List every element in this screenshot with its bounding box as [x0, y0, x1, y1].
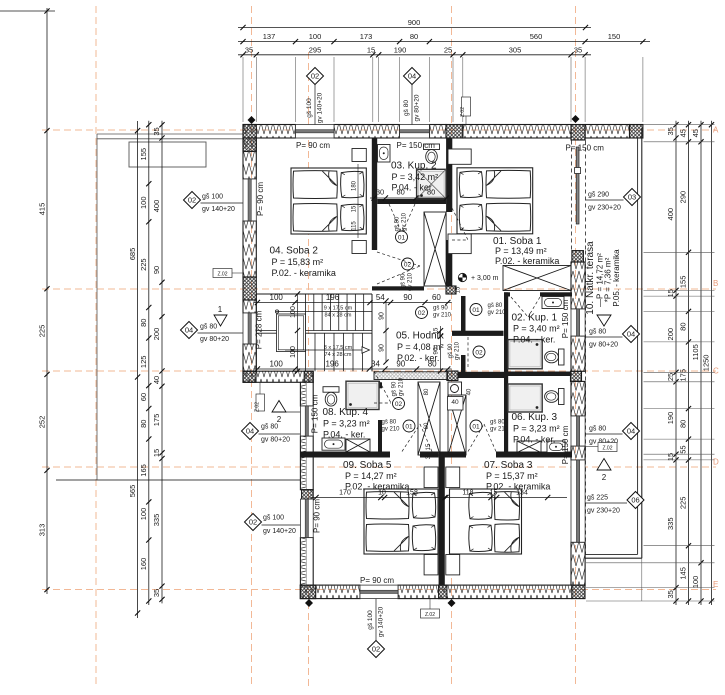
lower rooms top wall left	[300, 452, 390, 458]
marker 02 top	[307, 68, 324, 85]
svg-text:74 x 28 cm: 74 x 28 cm	[325, 352, 352, 358]
svg-text:02: 02	[418, 310, 426, 317]
bath03 toilet	[424, 144, 440, 150]
svg-text:09. Soba 5: 09. Soba 5	[343, 460, 392, 471]
svg-text:gv 140+20: gv 140+20	[263, 528, 296, 535]
svg-text:08. Kup. 4: 08. Kup. 4	[323, 407, 369, 418]
svg-text:gv 140+20: gv 140+20	[202, 206, 235, 213]
stair mid landing double line	[256, 330, 372, 332]
svg-text:9 x 17,5 cm: 9 x 17,5 cm	[324, 306, 353, 312]
svg-text:175: 175	[152, 414, 161, 427]
bed Soba3	[450, 489, 522, 554]
stair void	[277, 314, 306, 352]
svg-text:35: 35	[666, 590, 675, 598]
svg-text:P= 90 cm: P= 90 cm	[296, 141, 330, 150]
axis marker bottom x309	[305, 599, 313, 607]
svg-text:04: 04	[185, 326, 193, 335]
door Soba5 swing	[402, 424, 420, 452]
svg-text:Z.02: Z.02	[255, 402, 261, 412]
svg-text:02: 02	[404, 261, 412, 268]
nightstand Soba2 bottom	[352, 241, 366, 254]
desk Soba1	[503, 266, 571, 291]
door Kup1 swing	[511, 297, 528, 317]
bath03 dim row 30/80/80	[370, 197, 450, 199]
svg-text:01: 01	[472, 307, 480, 314]
svg-text:290: 290	[679, 191, 688, 204]
stair treads upper flight	[306, 294, 372, 331]
svg-text:P.04. - ker.: P.04. - ker.	[513, 435, 555, 445]
svg-text:175: 175	[679, 369, 688, 382]
svg-text:03: 03	[628, 193, 636, 202]
svg-text:P= 228 cm: P= 228 cm	[255, 310, 264, 349]
svg-text:1250: 1250	[702, 355, 711, 372]
Kup3 shower	[508, 384, 542, 412]
svg-text:P = 14,27 m²: P = 14,27 m²	[345, 471, 397, 481]
svg-text:04: 04	[246, 427, 254, 436]
wardrobe right of partition	[448, 395, 466, 455]
stair dim row top 100/196/54/90/60	[253, 302, 451, 304]
svg-text:P= 150 cm: P= 150 cm	[561, 425, 570, 464]
svg-text:155: 155	[139, 148, 148, 161]
axis B	[42, 288, 716, 290]
svg-text:100: 100	[139, 508, 148, 521]
corridor strip cross wall	[452, 331, 504, 336]
svg-text:400: 400	[666, 208, 675, 221]
door Soba3 swing	[468, 424, 484, 452]
svg-text:P= 150 cm: P= 150 cm	[311, 394, 320, 433]
svg-text:gv 210: gv 210	[382, 427, 401, 433]
door bath03 swing	[389, 204, 402, 233]
svg-text:D: D	[713, 458, 719, 467]
vertical axis x=308.5	[308, 52, 310, 688]
top dimension row 35/295/15/190/25/305/35	[238, 54, 591, 56]
marker 04 left	[181, 322, 198, 339]
strip door dashed	[467, 337, 469, 369]
svg-text:gv 210: gv 210	[455, 341, 461, 360]
svg-text:02: 02	[188, 196, 196, 205]
Z.02 label bottom	[421, 609, 440, 618]
corridor bottom wall	[374, 372, 448, 380]
top witness lines	[242, 57, 244, 122]
svg-text:40: 40	[152, 376, 161, 384]
Kup1 shower	[508, 340, 542, 369]
top exterior wall	[243, 125, 296, 139]
svg-text:06: 06	[631, 496, 639, 505]
wall hall | Soba1 lower part	[446, 240, 452, 287]
Z.02 label left	[213, 269, 232, 278]
stair treads lower flight	[306, 333, 373, 371]
neighbour terrace rect 155	[129, 142, 206, 167]
svg-text:gš 290: gš 290	[588, 192, 609, 199]
left dimension column 155/100/225/80/125/60/80/165/100/160	[148, 121, 150, 605]
top dimension row 137/100/173/80/560 and 150	[238, 41, 650, 43]
stair enclosure	[256, 293, 372, 295]
right dimension column 1250	[711, 121, 713, 605]
bath03 sink	[378, 145, 391, 163]
svg-text:40: 40	[451, 399, 459, 406]
svg-text:01: 01	[405, 423, 413, 430]
axis E	[42, 589, 716, 591]
svg-text:34: 34	[371, 359, 380, 368]
section marker down-triangle right	[597, 315, 611, 326]
left dimension column 35/400/90/200/40/175/15/335/35	[161, 121, 163, 604]
Kup4 shower	[346, 381, 379, 409]
svg-text:305: 305	[509, 45, 522, 54]
marker 04 top	[404, 68, 421, 85]
Kup1 top wall	[504, 292, 510, 296]
right dimension column 45/290/155/80/175/80/55/225/145	[688, 121, 690, 605]
svg-text:80: 80	[679, 420, 688, 428]
svg-text:200: 200	[666, 328, 675, 341]
svg-text:P = 13,49 m²: P = 13,49 m²	[495, 246, 547, 256]
svg-text:Z.02: Z.02	[602, 445, 612, 451]
svg-text:+ 3,00 m: + 3,00 m	[471, 275, 499, 282]
svg-text:gv 80+20: gv 80+20	[261, 437, 290, 444]
svg-text:P = 3,23 m²: P = 3,23 m²	[323, 419, 370, 429]
svg-text:05. Hodnik: 05. Hodnik	[396, 331, 445, 342]
svg-text:8 x 17,5 cm: 8 x 17,5 cm	[324, 345, 353, 351]
svg-text:90: 90	[152, 266, 161, 274]
Kup3 toilet	[559, 389, 565, 405]
left exterior wall	[243, 138, 256, 179]
Kup4 toilet	[323, 387, 339, 393]
svg-text:100: 100	[290, 306, 297, 318]
svg-text:gš 80: gš 80	[488, 303, 503, 309]
svg-text:P = 15,37 m²: P = 15,37 m²	[486, 471, 538, 481]
svg-text:P = 3,42 m²: P = 3,42 m²	[392, 172, 439, 182]
axis marker top x251	[248, 116, 256, 124]
svg-text:P.02. - keramika: P.02. - keramika	[272, 268, 336, 278]
Z.02 label top	[462, 97, 471, 116]
svg-text:gv 230+20: gv 230+20	[587, 508, 620, 515]
wardrobe left of partition	[418, 382, 440, 455]
stair bottom wall	[243, 371, 313, 382]
svg-text:gv 210: gv 210	[402, 212, 408, 231]
right witness lines	[644, 124, 715, 126]
svg-text:gš 90: gš 90	[392, 381, 398, 396]
window P=150 top	[400, 125, 430, 139]
svg-text:252: 252	[37, 416, 46, 429]
svg-text:15: 15	[456, 286, 462, 293]
axis marker top x575	[572, 115, 580, 123]
Kup1 sink	[542, 297, 564, 309]
Kup3 left wall	[504, 376, 508, 456]
svg-text:P.02. - ker.: P.02. - ker.	[397, 353, 439, 363]
svg-text:200: 200	[152, 328, 161, 341]
door marker 01 bath03	[396, 231, 408, 243]
Kup3 sink	[547, 441, 565, 453]
svg-text:Z.02: Z.02	[460, 107, 466, 117]
Kup4 sink	[322, 438, 345, 450]
top dimension row 900	[238, 27, 591, 29]
svg-text:04: 04	[408, 72, 416, 81]
section marker 2 left	[272, 401, 286, 413]
svg-text:02: 02	[395, 401, 403, 408]
vertical axis x=575.5	[575, 6, 577, 688]
svg-text:118: 118	[462, 490, 473, 497]
svg-text:125: 125	[139, 356, 148, 369]
svg-text:P.04. - ker.: P.04. - ker.	[323, 430, 365, 440]
svg-text:04: 04	[627, 427, 635, 436]
svg-text:335: 335	[152, 514, 161, 527]
axis marker bottom x451	[448, 599, 456, 607]
svg-text:gš 80: gš 80	[589, 426, 606, 433]
door Soba1 swing	[452, 208, 468, 240]
box Kup4	[346, 439, 370, 452]
column top x575	[571, 125, 585, 141]
svg-text:gš 225: gš 225	[587, 495, 608, 502]
svg-text:gš 80: gš 80	[403, 100, 410, 116]
marker 06 right bottom	[627, 492, 644, 509]
svg-text:335: 335	[666, 517, 675, 530]
door Kup4 swing	[374, 371, 391, 403]
svg-text:54: 54	[376, 293, 385, 302]
Kup1 left wall	[504, 292, 508, 371]
svg-text:100: 100	[270, 359, 284, 368]
svg-text:gv 80+20: gv 80+20	[414, 94, 421, 121]
corridor dim 15/90	[440, 326, 442, 371]
marker 04 right lower	[623, 423, 640, 440]
svg-text:P= 150 cm: P= 150 cm	[561, 299, 570, 338]
svg-text:02: 02	[249, 518, 257, 527]
svg-text:2: 2	[602, 473, 607, 482]
strip bottom wall	[458, 372, 504, 378]
svg-text:35: 35	[666, 127, 675, 135]
svg-text:B: B	[713, 279, 718, 288]
ventilation shaft with X	[424, 212, 446, 286]
door marker 02 Soba2	[402, 258, 414, 270]
svg-text:160: 160	[139, 558, 148, 571]
svg-text:gš 80: gš 80	[382, 420, 397, 426]
nightstand Soba2 top	[352, 149, 366, 162]
corner bottom-left	[300, 585, 315, 599]
lower rooms interior dim row	[311, 497, 567, 499]
door Soba2 swing	[377, 252, 420, 266]
svg-text:gv 80+20: gv 80+20	[589, 342, 618, 349]
svg-text:35: 35	[152, 127, 161, 135]
svg-text:84 x 28 cm: 84 x 28 cm	[325, 313, 352, 319]
partition Soba5 | Soba3	[439, 458, 445, 586]
svg-text:313: 313	[37, 524, 46, 537]
window P=150 right upper (Kup1)	[571, 309, 585, 336]
svg-text:90: 90	[378, 312, 385, 320]
svg-text:07. Soba 3: 07. Soba 3	[484, 460, 533, 471]
stair walk line lower with arrow	[285, 349, 362, 351]
stair side dim 90/90	[385, 301, 387, 362]
svg-text:196: 196	[326, 293, 340, 302]
marker 04 lower-left	[242, 423, 259, 440]
stair walk line upper	[276, 311, 372, 313]
terrace corner column	[630, 125, 643, 139]
bath03 shower	[417, 169, 447, 199]
Kup4 right wall	[378, 382, 382, 388]
marker 02 lower-left	[245, 514, 262, 531]
svg-text:gv 210: gv 210	[399, 377, 405, 396]
corridor strip left wall lower	[461, 355, 466, 372]
neighbour unit wall lines	[97, 133, 243, 135]
column top x452	[446, 125, 463, 139]
svg-text:565: 565	[128, 485, 137, 498]
bed Soba5	[364, 489, 438, 554]
door marker 01 Soba1	[470, 304, 482, 316]
svg-text:35: 35	[245, 45, 253, 54]
window P=150 right lower (Kup3)	[571, 416, 585, 446]
svg-text:90: 90	[403, 293, 412, 302]
svg-text:P= 90 cm: P= 90 cm	[360, 576, 394, 585]
svg-text:P= 150 cm: P= 150 cm	[397, 141, 436, 150]
small block at B x448	[446, 286, 456, 294]
svg-text:03. Kup. 2: 03. Kup. 2	[391, 161, 437, 172]
nightstands lower rooms	[424, 467, 438, 488]
left dimension column 415/225/252/313	[0, 10, 55, 12]
svg-text:gš 80: gš 80	[490, 420, 505, 426]
svg-text:295: 295	[309, 45, 322, 54]
svg-text:900: 900	[408, 18, 421, 27]
svg-text:100: 100	[290, 346, 297, 358]
svg-text:25: 25	[666, 373, 675, 381]
svg-text:60: 60	[432, 293, 441, 302]
window P=150 lower-left	[300, 406, 313, 436]
svg-text:190: 190	[394, 45, 407, 54]
svg-text:P.04. - ker.: P.04. - ker.	[513, 335, 555, 345]
right exterior wall	[572, 251, 584, 262]
svg-text:gš 80: gš 80	[395, 216, 401, 231]
svg-text:P= 90 cm: P= 90 cm	[313, 499, 322, 533]
B wall left segment	[372, 286, 424, 290]
window P=228 left	[243, 313, 256, 344]
Z.02 label right	[598, 443, 617, 452]
svg-text:45: 45	[679, 129, 688, 137]
svg-text:10. Natkr. terasa: 10. Natkr. terasa	[585, 241, 596, 315]
svg-text:1: 1	[218, 305, 223, 314]
section marker 2 right	[597, 459, 611, 471]
level marker +3.00	[458, 273, 466, 281]
svg-text:gš 90: gš 90	[433, 306, 448, 312]
svg-text:gš 80: gš 80	[200, 324, 217, 331]
svg-text:35: 35	[152, 589, 161, 597]
right dimension column 35/400/15/200/25/190/15/335/35	[675, 121, 677, 605]
corner bottom-right	[572, 585, 585, 599]
svg-text:100: 100	[139, 196, 148, 209]
stair flight width dim	[297, 294, 299, 371]
corridor strip left wall upper	[461, 296, 466, 331]
svg-text:415: 415	[37, 203, 46, 216]
window P=90 lower-left	[300, 499, 313, 537]
svg-text:P.02. - keramika: P.02. - keramika	[495, 256, 559, 266]
bed Soba2 dim line	[357, 164, 359, 238]
svg-text:180: 180	[352, 180, 358, 191]
svg-text:190: 190	[666, 412, 675, 425]
svg-text:gv 210: gv 210	[488, 310, 507, 316]
bed Soba2	[291, 168, 366, 234]
svg-text:gš 100: gš 100	[306, 98, 313, 118]
terrace top wall	[585, 125, 629, 139]
svg-text:gv 210: gv 210	[433, 313, 452, 319]
svg-text:80: 80	[139, 420, 148, 428]
svg-text:P = 3,23 m²: P = 3,23 m²	[513, 424, 560, 434]
svg-text:A: A	[713, 126, 719, 135]
svg-text:04. Soba 2: 04. Soba 2	[270, 246, 319, 257]
svg-text:400: 400	[152, 200, 161, 213]
svg-text:gš 100: gš 100	[263, 515, 284, 522]
stair dim row bottom 100/196/34/90/80	[253, 368, 451, 370]
svg-text:145: 145	[679, 567, 688, 580]
door marker 02 at B	[416, 307, 428, 319]
svg-text:35: 35	[574, 45, 582, 54]
vertical axis x=451.5	[451, 6, 453, 688]
svg-text:gš 90: gš 90	[401, 273, 407, 288]
wall Kup1 | Kup3	[504, 372, 572, 377]
svg-text:80: 80	[139, 319, 148, 327]
svg-text:173: 173	[360, 32, 373, 41]
svg-text:gš 80: gš 80	[589, 329, 606, 336]
svg-text:115: 115	[352, 221, 358, 231]
svg-text:60: 60	[139, 393, 148, 401]
window gs225 right (Soba3)	[571, 460, 585, 542]
door marker 02 Kup4	[393, 398, 405, 410]
svg-text:25: 25	[444, 45, 452, 54]
svg-text:80: 80	[424, 388, 430, 395]
svg-text:90: 90	[378, 344, 385, 352]
svg-text:gv 210: gv 210	[490, 427, 509, 433]
axis D	[42, 466, 716, 468]
svg-text:gš 80: gš 80	[261, 424, 278, 431]
corner column top-left	[243, 125, 256, 152]
svg-text:225: 225	[139, 258, 148, 271]
shaft wall piece	[446, 201, 452, 212]
svg-text:04: 04	[627, 330, 635, 339]
svg-text:Z.02: Z.02	[217, 271, 227, 277]
terrace right wall	[641, 128, 643, 558]
washer Kup3	[517, 441, 541, 453]
svg-text:P = 3,40 m²: P = 3,40 m²	[513, 324, 560, 334]
svg-text:225: 225	[37, 325, 46, 338]
svg-text:40: 40	[467, 388, 473, 395]
lower-left exterior wall	[300, 382, 313, 406]
Kup1 toilet	[559, 349, 565, 365]
marker 02 left upper	[184, 192, 201, 209]
marker 04 right upper	[623, 326, 640, 343]
svg-text:80: 80	[410, 32, 418, 41]
axis C	[42, 370, 716, 372]
svg-text:196: 196	[325, 359, 339, 368]
svg-text:P = 4,08 m²: P = 4,08 m²	[397, 342, 444, 352]
Z.02 label stairs	[256, 394, 265, 411]
svg-text:100: 100	[309, 32, 322, 41]
svg-text:gv 140+20: gv 140+20	[378, 606, 385, 637]
axis A (horizontal)	[42, 129, 716, 131]
svg-text:30: 30	[376, 188, 384, 197]
svg-text:02: 02	[372, 645, 380, 654]
svg-text:137: 137	[263, 32, 276, 41]
svg-text:gš 100: gš 100	[202, 194, 223, 201]
svg-text:02: 02	[475, 349, 483, 356]
wall Soba2 | bath03/hall	[372, 138, 377, 250]
svg-text:685: 685	[128, 248, 137, 261]
door marker 01 Soba3	[470, 420, 482, 432]
svg-text:02: 02	[311, 72, 319, 81]
svg-text:gv 210: gv 210	[408, 272, 414, 291]
svg-text:60: 60	[424, 422, 430, 429]
svg-text:225: 225	[679, 497, 688, 510]
svg-text:P.02. - keramika: P.02. - keramika	[486, 482, 550, 492]
svg-text:55: 55	[679, 445, 688, 453]
svg-text:gv 80+20: gv 80+20	[200, 336, 229, 343]
window P=90 left	[243, 179, 256, 221]
svg-text:C: C	[713, 367, 719, 376]
vertical axis x=251.5	[251, 6, 253, 688]
svg-text:1105: 1105	[691, 344, 700, 360]
